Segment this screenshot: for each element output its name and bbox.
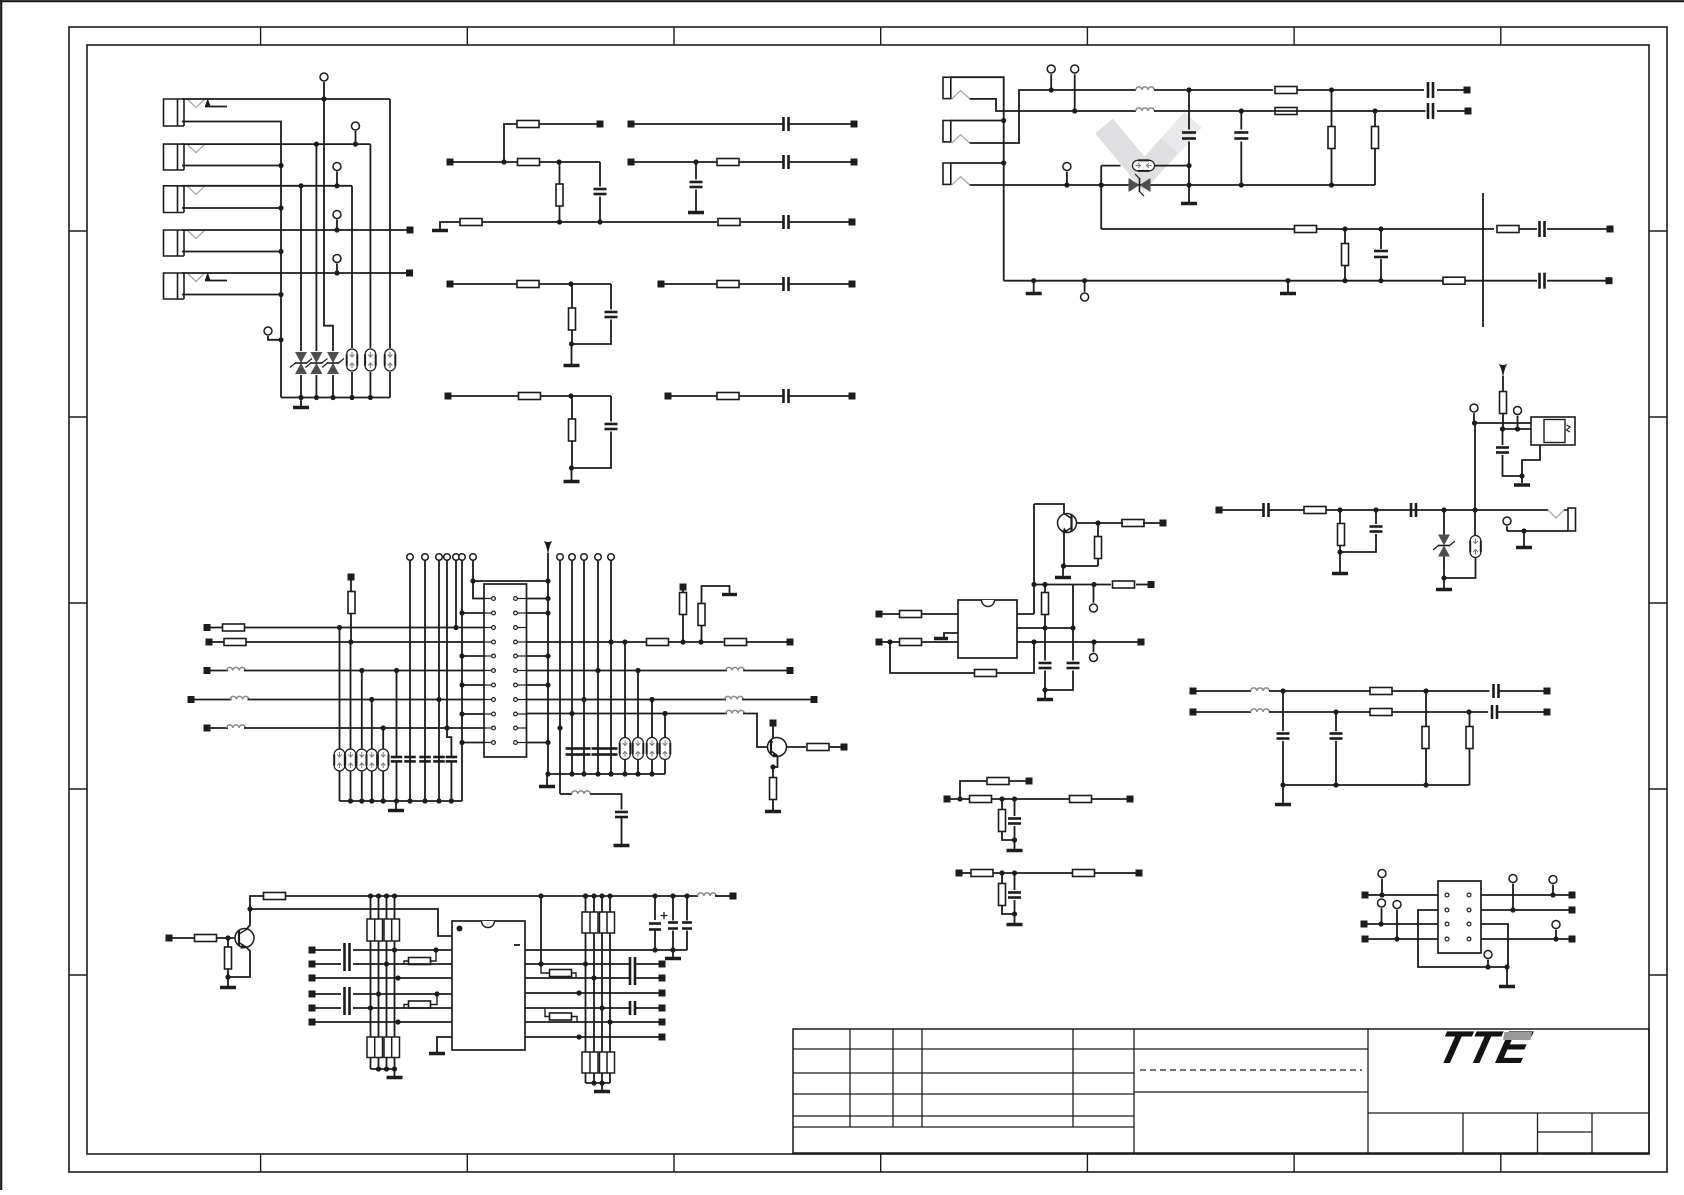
surge arrester E1 (347, 349, 358, 371)
pad rowA out (787, 639, 794, 646)
pad divA out (1127, 796, 1134, 803)
inductor L31 (227, 667, 246, 670)
surge arrester E33 (361, 671, 363, 750)
ground right bus (546, 774, 548, 785)
pad row1008 out (659, 1005, 666, 1012)
ground RP (392, 1066, 397, 1071)
capacitor C102 series (782, 215, 785, 229)
CN1 pin pair 8 (484, 699, 492, 701)
inductor L33 (227, 725, 246, 728)
wire J3 ring row y208 (182, 207, 281, 209)
wire right vertical x584 (583, 560, 585, 774)
capacitor C122 series mid (1410, 503, 1413, 517)
pad U4 row950 in (309, 947, 316, 954)
resistor R156 vertical (682, 591, 684, 593)
ground R122 (1339, 552, 1341, 572)
junction J12 sleeve (1001, 118, 1006, 123)
CN1 pin pair 3 (484, 627, 492, 629)
resistor R106 (717, 159, 739, 166)
resistor pack RP1 (367, 919, 383, 941)
resistor R143 (987, 778, 1009, 785)
sheet outer edge (0, 0, 1684, 2)
terminal right row895 (1549, 876, 1557, 884)
pad f2 out (1544, 709, 1551, 716)
phone jack J11 body (943, 77, 951, 98)
wire row728 (244, 727, 484, 729)
phone jack J14 headphone (1548, 510, 1564, 518)
wire row229 cont (1317, 228, 1494, 230)
wire row229 from drop (1101, 228, 1294, 230)
capacitor C109 series (782, 389, 785, 403)
junction x316 row144 (314, 142, 319, 147)
svg-text:TTE: TTE (1433, 1022, 1537, 1073)
wire left vertical x456 (455, 560, 457, 627)
surge arrester E34 (371, 700, 373, 750)
U4 pin1 dot (457, 926, 463, 932)
junction row1 cap1 (1186, 87, 1191, 92)
pad R156 top (680, 584, 687, 591)
ground J14 (1523, 531, 1525, 546)
inductor L32 (230, 696, 249, 699)
resistor R146 (1073, 870, 1095, 877)
resistor pack RP2 (367, 1037, 383, 1058)
wire J2 tip row y144 (182, 143, 370, 145)
pad row584 out (1148, 581, 1155, 588)
wire rowB (634, 161, 717, 163)
ground symbol bus right (1287, 281, 1289, 292)
pad CN2 row895 out (1569, 892, 1576, 899)
junction row2 x559 (556, 159, 561, 164)
wire right vertical x611 (610, 560, 612, 774)
wire IR net vertical (1474, 423, 1476, 510)
jack J13 switch contact (952, 177, 970, 185)
wire CN1 rowD out (527, 713, 728, 715)
capacitor C127 shunt (1282, 691, 1284, 731)
resistor R113 row1 (1275, 87, 1297, 94)
resistor R133 (1113, 581, 1135, 588)
inductor L41 (698, 893, 717, 896)
TVS diode D1 (295, 352, 307, 363)
capacitor C121 series (1262, 503, 1265, 517)
capacitor C151 (396, 671, 398, 758)
CN1 pin pair 5 (484, 655, 492, 657)
capacitor C116 series (1538, 221, 1541, 237)
wire rowA (634, 123, 784, 125)
connector CN2 body (1438, 881, 1481, 953)
resistor R107 (517, 281, 539, 288)
wire top bus row896 (250, 896, 263, 909)
right ESD ground bus (547, 773, 665, 775)
U4 right row964 (525, 963, 629, 965)
pad row964 out (659, 961, 666, 968)
resistor R142 (1070, 796, 1092, 803)
capacitor C168 series (629, 957, 632, 971)
inductor L37 (572, 791, 591, 794)
terminal right row939 (1552, 921, 1560, 929)
transistor Q3 (235, 929, 254, 948)
title block left table columns (849, 1029, 851, 1127)
surge arrester E2 (365, 349, 376, 371)
ground C111 (1181, 202, 1197, 206)
resistor R103 vertical (556, 184, 563, 206)
wire row1 to caps (1297, 89, 1424, 91)
capacitor C162 series (343, 957, 346, 971)
title block middle cell dashed revision line (1140, 1069, 1362, 1071)
TVS diode D2 (310, 352, 322, 363)
surge arrester E35 (382, 728, 384, 749)
wire J11 sleeve to ground bus (951, 77, 1004, 281)
capacitor C154 (433, 756, 445, 759)
border top ticks (260, 27, 262, 45)
resistor R164 jog (404, 961, 409, 964)
CN1 pin pair 11 (484, 742, 492, 744)
resistor pack RP4 (582, 1052, 598, 1073)
antenna symbol IR (1499, 364, 1508, 379)
pad row1 (597, 121, 604, 128)
wire right vertical x598 (597, 560, 599, 774)
wire bus896 (286, 895, 699, 897)
jack J2 switch contact (187, 144, 206, 153)
resistor R154 (647, 639, 669, 646)
pad row1 out (1464, 87, 1471, 94)
capacitor C113 series (1427, 82, 1430, 98)
capacitor C111 shunt (1188, 90, 1190, 130)
wire row510 cont (1326, 509, 1548, 511)
resistor R145 (971, 870, 993, 877)
terminal CN2 row924 (1378, 899, 1386, 907)
title block outline (793, 1029, 1649, 1153)
pad divA in (944, 796, 951, 803)
wire left vertical x439 (438, 560, 440, 801)
testpoint with stub to ring bus (264, 327, 272, 335)
pad row4 (447, 281, 454, 288)
pad U1 in2 (876, 639, 883, 646)
wire aux below bus (560, 793, 572, 795)
CN1 pin pair 9 (484, 713, 492, 715)
wire row2 cont (540, 161, 600, 163)
wire row642 (246, 641, 484, 643)
pad U1 row642 out (1138, 639, 1145, 646)
pad divB out (1136, 870, 1143, 877)
resistor R134 (900, 611, 922, 618)
pad U4 row964 in (309, 961, 316, 968)
resistor R114 row2 (1275, 108, 1297, 115)
phone jack J12 body (943, 121, 951, 142)
capacitor C153 (419, 756, 431, 759)
capacitor C108 (605, 423, 618, 426)
ground row4 (571, 344, 573, 364)
capacitor C125 series (1492, 684, 1495, 698)
wire center supply vertical x324 with jog (324, 82, 333, 351)
power rail bar (722, 593, 737, 596)
wire bus vertical x352 from J3 tip (351, 186, 353, 348)
wire oval column x390 lower (389, 372, 391, 398)
ground left bus (395, 801, 397, 809)
ground divA (1014, 840, 1016, 849)
resistor R124 (1370, 688, 1392, 695)
resistor R118 vertical (1342, 244, 1349, 266)
wire J12 tip to row1 (970, 90, 1136, 143)
wire row3 to pad (789, 221, 850, 223)
ground symbol bus left (1033, 281, 1035, 292)
wire U1 row628 (1017, 627, 1073, 629)
wire J3 tip row y186 (182, 185, 352, 187)
wire J13 tip row3 (970, 184, 1120, 186)
testpoint stub row230 (333, 211, 341, 219)
wire right vertical x560 (559, 560, 561, 794)
capacitor C158 (592, 747, 605, 750)
ground RP4 (601, 1083, 603, 1090)
wire J4 ring row y251 (182, 251, 281, 253)
resistor R152 (224, 639, 246, 646)
capacitor C128 shunt (1335, 712, 1337, 731)
wire pin1R pin2R stubs (527, 598, 549, 600)
wire row3 long (482, 221, 717, 223)
capacitor C112 shunt (1240, 111, 1242, 130)
wire Q3 emitter (228, 947, 250, 977)
terminal row1 (1047, 65, 1055, 73)
capacitor C115 shunt (1380, 229, 1382, 249)
resistor R132 vertical (1095, 537, 1102, 559)
wire row510 (1222, 509, 1264, 511)
U4 right row1022 (525, 1021, 659, 1023)
capacitor C152 (404, 756, 416, 759)
pad Q3 base in (166, 935, 173, 942)
wire divA top branch (960, 781, 987, 799)
wire J11 tip to row2 (970, 99, 1136, 111)
pad net MIC2 (406, 270, 413, 277)
jack J4 switch contact (187, 230, 206, 239)
right terminals row (557, 554, 564, 561)
transistor Q1 (1058, 514, 1077, 533)
resistor R163 (264, 893, 286, 900)
RP1 wires (370, 896, 372, 919)
resistor R102 (518, 159, 540, 166)
ground symbol jack block (300, 398, 302, 407)
wire row584 (1034, 584, 1111, 586)
resistor R153 vertical (350, 581, 352, 592)
resistor R104 (460, 219, 482, 226)
resistor R157 vertical (702, 586, 730, 604)
wire aux to cap (590, 794, 622, 810)
surge arrester E3 (385, 349, 396, 371)
right ESD group (624, 642, 626, 737)
pad row3 (849, 219, 856, 226)
wire f1 (1269, 690, 1370, 692)
resistor R112 (717, 393, 739, 400)
capacitor C105 series (782, 155, 785, 169)
capacitor C155 (446, 756, 458, 759)
pad row5 (445, 393, 452, 400)
resistor R137 vertical (1042, 593, 1049, 615)
ground aux (614, 844, 630, 848)
testpoint J14 (1503, 517, 1511, 525)
resistor R135 (900, 639, 922, 646)
pad row4 right (658, 281, 665, 288)
ground bus under jack block (281, 397, 390, 399)
resistor R117 (1295, 226, 1317, 233)
capacitor C141 (1014, 799, 1016, 816)
phone jack J3 body (164, 186, 185, 213)
connector CN1 body (484, 584, 527, 757)
pad left row700 in (188, 696, 195, 703)
resistor R115 vertical (1328, 127, 1335, 149)
wire TVS column x301 from J3 tip row (300, 186, 302, 351)
capacitor C159 (605, 747, 618, 750)
junction J1 tip/supply (321, 96, 326, 101)
pad row5 out (849, 393, 856, 400)
ground filter (1282, 785, 1284, 803)
pad row2 out (1465, 108, 1472, 115)
ground D12 (1443, 578, 1445, 588)
wire CN1 rowC out (527, 699, 727, 701)
surge arrester E31 (339, 628, 341, 750)
surge arrester E11 row (1101, 165, 1120, 167)
wire Q1 collector feed (1034, 504, 1064, 514)
RP4 lower wires (585, 1073, 587, 1083)
wire IR module ground leg (1522, 445, 1540, 483)
wire cap branch row5 (610, 396, 612, 422)
pad U4 row994 in (309, 991, 316, 998)
inductor L12 row2 (1136, 108, 1155, 111)
CN1 pin pair 4 (484, 641, 492, 643)
wire CN1 top loop (473, 581, 548, 656)
CN1 pin pair 6 (484, 670, 492, 672)
pad row2 input (447, 159, 454, 166)
ground Q2 (765, 810, 781, 814)
resistor pack RP3 (582, 912, 598, 933)
terminal row2 (1071, 65, 1079, 73)
pad Q1 base out (1160, 520, 1167, 527)
phone jack J5 body (164, 273, 185, 299)
terminal right row910 (1509, 875, 1517, 883)
resistor R116 vertical (1372, 127, 1379, 149)
TVS diode D11 (1129, 178, 1140, 192)
capacitor C164 series (343, 1001, 346, 1015)
CN1 pin pair 1 (484, 598, 492, 600)
pad row510 in (1216, 507, 1223, 514)
RP3 wires (585, 896, 587, 912)
pad f2 in (1190, 709, 1197, 716)
pad rowB out (787, 667, 794, 674)
resistor R144 vertical (999, 810, 1006, 832)
phone jack J13 body (943, 163, 951, 184)
pad divB in (956, 870, 963, 877)
wire J5 tip row to pad (182, 272, 406, 274)
terminal above supply vertical (320, 73, 328, 81)
wire antenna to CN1 top (547, 553, 549, 581)
CN2 pin pair 4 (1445, 937, 1449, 941)
terminal IR pin (1514, 407, 1522, 415)
pad f1 in (1190, 688, 1197, 695)
capacitor C114 series (1427, 103, 1430, 119)
title block middle cell rows (1134, 1048, 1368, 1050)
inductor L35 (725, 696, 744, 699)
CN1 pin pair 2 (484, 612, 492, 614)
U4 right row950 (525, 949, 687, 951)
wire x1073 vertical (1072, 585, 1074, 629)
wire IR row to module (1474, 422, 1531, 424)
U4 right row993 (525, 992, 659, 994)
wire CN1 pin5 stub left (462, 655, 484, 657)
wire IR pins (1503, 428, 1532, 430)
capacitor C161 series (343, 943, 346, 957)
U4 bottom left ground pin (437, 1037, 452, 1052)
wire CN1 pin11R stub (527, 742, 549, 744)
wire J13 sleeve (951, 162, 1004, 164)
CN2 pin pair 2 (1445, 908, 1449, 912)
border right ticks (1649, 230, 1667, 232)
wire CN1 pin1 left feed (473, 560, 484, 598)
wire row628 (245, 627, 485, 629)
wire row2 (453, 161, 517, 163)
terminal CN2 gnd (1484, 951, 1492, 959)
wire row671 (244, 670, 484, 672)
wire J5 ring row y294 (182, 294, 281, 296)
TTE logo (1433, 1022, 1537, 1073)
ground U1 caps (1044, 690, 1046, 698)
wire left vertical x425 (424, 560, 426, 801)
ground Q3 (227, 977, 229, 986)
capacitor C104 shunt (695, 162, 697, 180)
RP3 lower segments (585, 964, 587, 1052)
wire Q1 base row (1076, 522, 1123, 524)
pad U4 row978 in (309, 975, 316, 982)
wire CN1 pin7R stub (527, 684, 549, 686)
RP ground bus (371, 1068, 395, 1070)
wire row1 feed from row2 junction (504, 124, 517, 162)
capacitor C156 (566, 747, 579, 750)
wire right bus vertical x390 (389, 99, 391, 348)
phone jack J1 body (164, 99, 185, 126)
pad row1037 out (659, 1034, 666, 1041)
junction row2 cap2 (1239, 108, 1244, 113)
phone jack J4 body (164, 230, 185, 256)
wire CN1 pin2 stub left (462, 612, 484, 614)
ground divB (1014, 914, 1016, 923)
inductor L34 (726, 667, 745, 670)
pad rowA out (851, 121, 858, 128)
TVS diode D12 (1443, 510, 1445, 535)
resistor R109 (717, 281, 739, 288)
capacitor C126 series (1491, 705, 1494, 719)
wire CN2 right row895 (1481, 894, 1569, 896)
resistor R166 jog (541, 964, 550, 973)
resistor R147 vertical (999, 884, 1006, 906)
CN1 pin pair 10 (484, 727, 492, 729)
wire cap branch row4 (610, 284, 612, 310)
CN1 pin pair 7 (484, 684, 492, 686)
resistor R110 (519, 393, 541, 400)
resistor R161 (195, 935, 217, 942)
ground CN2 (1506, 967, 1508, 985)
wire row1 cont (1154, 89, 1273, 91)
pad rowB out (851, 159, 858, 166)
resistor R125 (1370, 709, 1392, 716)
watermark check mark (1104, 120, 1193, 174)
resistor R119 (1497, 226, 1519, 233)
pad CN2 row939 out (1569, 936, 1576, 943)
wire left vertical x410 (409, 560, 411, 801)
capacitor C167 (686, 896, 688, 921)
wire Q2 right to resistor (786, 746, 806, 748)
capacitor C123 shunt (1375, 510, 1377, 524)
RP2 lower wires (370, 1058, 372, 1070)
resistor R158 (807, 744, 829, 751)
resistor R105 (718, 219, 740, 226)
title block bottom-right sub cells (1462, 1113, 1464, 1153)
testpoint row584 (1090, 604, 1098, 612)
